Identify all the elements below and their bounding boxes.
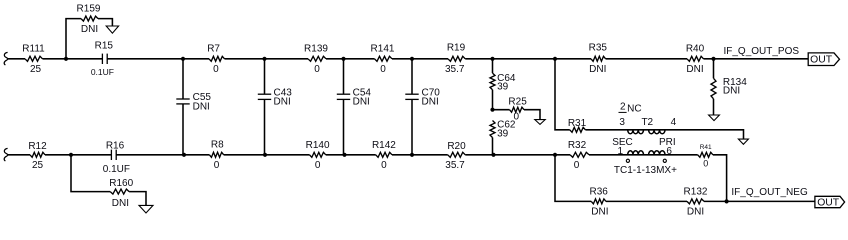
wire NEG line segment 2	[606, 200, 687, 202]
node Q junction R36 feed	[553, 153, 557, 157]
svg-text:OUT: OUT	[810, 55, 833, 66]
transformer T2 secondary winding	[627, 154, 666, 156]
svg-text:39: 39	[497, 82, 509, 93]
wire R31 feed from top rail	[555, 59, 570, 130]
wire bottom rail segment 1	[8, 154, 30, 156]
svg-text:DNI: DNI	[274, 96, 291, 107]
resistor R160	[110, 189, 129, 194]
node L junction C55 bottom	[182, 153, 186, 157]
svg-text:0: 0	[703, 159, 708, 169]
resistor R32	[570, 152, 589, 157]
svg-text:R20: R20	[447, 141, 466, 152]
capacitor C55	[182, 59, 184, 99]
svg-text:0: 0	[213, 64, 219, 75]
wire R160 to ground	[129, 192, 146, 206]
wire bottom rail segment 2	[45, 154, 111, 156]
svg-text:R32: R32	[568, 140, 587, 151]
node G junction R31 feed	[553, 57, 557, 61]
node J junction C64/C62/R25	[490, 108, 494, 112]
svg-text:OUT: OUT	[817, 198, 840, 209]
ground G3 under R134	[709, 115, 720, 121]
port OUT positive	[808, 53, 839, 66]
ground G1	[106, 26, 118, 33]
svg-text:IF_Q_OUT_POS: IF_Q_OUT_POS	[724, 46, 800, 57]
resistor R111	[25, 56, 43, 61]
svg-text:R142: R142	[372, 140, 396, 151]
svg-text:0.1UF: 0.1UF	[91, 67, 114, 77]
wire R25 to ground	[524, 110, 540, 120]
resistor R132	[687, 199, 704, 204]
svg-text:R132: R132	[684, 186, 708, 197]
svg-text:R41: R41	[700, 144, 712, 151]
svg-text:TC1-1-13MX+: TC1-1-13MX+	[614, 165, 677, 176]
svg-text:NC: NC	[627, 104, 641, 115]
wire top rail segment 6	[392, 58, 448, 60]
svg-text:R160: R160	[109, 178, 133, 189]
wire R159 branch	[66, 19, 81, 59]
capacitor C54	[343, 59, 345, 94]
svg-text:DNI: DNI	[422, 96, 439, 107]
resistor C62 vertical	[490, 121, 495, 138]
wire top rail segment 9	[704, 58, 809, 60]
wire R25 branch	[493, 109, 510, 111]
resistor R7	[209, 56, 225, 61]
svg-text:R8: R8	[211, 139, 224, 150]
svg-text:R19: R19	[447, 43, 466, 54]
svg-text:R140: R140	[306, 140, 330, 151]
node M junction C43 bottom	[263, 153, 267, 157]
wire R41 to NEG line	[713, 155, 727, 202]
resistor R41	[698, 152, 713, 157]
svg-text:R31: R31	[568, 118, 587, 129]
svg-text:0: 0	[214, 160, 220, 171]
resistor R20	[448, 152, 466, 157]
wire R160 branch	[71, 155, 110, 192]
svg-text:DNI: DNI	[591, 206, 608, 217]
svg-text:R139: R139	[304, 44, 328, 55]
capacitor C70	[411, 59, 413, 94]
wire R36 feed from bottom rail	[555, 155, 591, 202]
svg-text:R36: R36	[590, 186, 609, 197]
polarity dot pin 6	[663, 159, 666, 162]
node A junction R111/R15/R159	[64, 57, 68, 61]
wire T2 pin 4 to ground	[665, 130, 744, 139]
ground G5 under R160	[139, 205, 153, 213]
wire NEG line segment 3	[704, 200, 815, 202]
wire top rail segment 4	[225, 58, 309, 60]
resistor R141	[375, 56, 393, 61]
wire top rail segment 2	[43, 58, 103, 60]
node K junction R12/R16/R160	[69, 153, 73, 157]
resistor R36	[591, 199, 606, 204]
svg-text:0: 0	[381, 160, 387, 171]
svg-text:IF_Q_OUT_NEG: IF_Q_OUT_NEG	[731, 187, 808, 198]
svg-text:25: 25	[30, 64, 42, 75]
svg-text:DNI: DNI	[687, 206, 704, 217]
node C junction C43 top	[262, 57, 266, 61]
ground G4 at T2 pin 4	[738, 139, 748, 144]
wire bottom rail segment 4	[224, 154, 310, 156]
svg-text:0: 0	[574, 160, 580, 171]
wire top rail segment 7	[465, 58, 591, 60]
svg-text:35.7: 35.7	[445, 64, 465, 75]
svg-text:R7: R7	[207, 44, 220, 55]
resistor R8	[209, 152, 223, 157]
port OUT negative	[815, 196, 845, 207]
svg-text:T2: T2	[641, 117, 653, 128]
resistor R159	[81, 16, 98, 21]
svg-text:0.1UF: 0.1UF	[103, 164, 130, 175]
ground G2 under R25	[535, 120, 545, 125]
resistor R25	[510, 107, 525, 112]
svg-text:R15: R15	[95, 40, 114, 51]
resistor R31	[570, 127, 586, 132]
svg-text:R159: R159	[77, 4, 101, 15]
node O junction C70 bottom	[410, 153, 414, 157]
wire bottom rail segment 8 to T2 pin 1	[589, 154, 627, 156]
svg-text:4: 4	[671, 117, 677, 128]
svg-text:35.7: 35.7	[445, 160, 465, 171]
wire top rail segment 3	[107, 58, 209, 60]
svg-text:0: 0	[314, 64, 320, 75]
svg-text:39: 39	[497, 128, 509, 139]
capacitor C43	[264, 59, 266, 94]
svg-text:3: 3	[619, 117, 625, 128]
resistor R35	[591, 56, 606, 61]
resistor R140	[310, 152, 326, 157]
node F junction C64 top	[490, 57, 494, 61]
svg-text:DNI: DNI	[353, 96, 370, 107]
capacitor R16	[110, 150, 112, 160]
node B junction C55 top	[181, 57, 185, 61]
svg-text:DNI: DNI	[723, 85, 740, 96]
capacitor R15	[101, 54, 103, 64]
svg-text:R12: R12	[28, 141, 47, 152]
node N junction C54 bottom	[342, 153, 346, 157]
node D junction C54 top	[341, 57, 345, 61]
transformer T2 primary winding	[627, 129, 666, 131]
svg-text:DNI: DNI	[112, 198, 129, 209]
svg-text:DNI: DNI	[81, 24, 98, 35]
svg-text:25: 25	[32, 160, 44, 171]
svg-text:R16: R16	[106, 141, 125, 152]
svg-text:0: 0	[380, 64, 386, 75]
svg-text:R141: R141	[371, 44, 395, 55]
svg-text:0: 0	[315, 160, 321, 171]
resistor R40	[687, 56, 704, 61]
svg-text:DNI: DNI	[193, 101, 210, 112]
node IN+ off-page squiggle	[4, 52, 8, 65]
resistor R12	[30, 152, 45, 157]
wire R159 to ground	[98, 19, 112, 26]
svg-text:2: 2	[620, 102, 626, 113]
svg-text:DNI: DNI	[686, 64, 703, 75]
wire bottom rail segment 3	[116, 154, 209, 156]
wire top rail segment 5	[326, 58, 375, 60]
wire bottom rail segment 7	[465, 154, 570, 156]
wire bottom rail segment 5	[326, 154, 376, 156]
node IN- off-page squiggle	[4, 148, 8, 161]
svg-text:1: 1	[618, 146, 624, 157]
wire bottom rail segment 6	[392, 154, 448, 156]
wire R31 to T2 pin 3	[585, 129, 626, 131]
node P junction C62 bottom	[491, 153, 495, 157]
wire top rail segment 1	[8, 58, 25, 60]
node E junction C70 top	[410, 57, 414, 61]
node H junction R134 top	[711, 57, 715, 61]
resistor R19	[448, 56, 465, 61]
wire T2 pin 6 to R41	[665, 154, 698, 156]
svg-text:DNI: DNI	[589, 64, 606, 75]
resistor R142	[376, 152, 392, 157]
resistor R139	[308, 56, 326, 61]
svg-text:R25: R25	[508, 96, 527, 107]
node R junction R41/NEG line	[725, 199, 729, 203]
resistor C64 vertical	[492, 59, 494, 73]
svg-text:R40: R40	[686, 44, 705, 55]
resistor R134 vertical	[713, 59, 715, 79]
polarity dot pin 1	[626, 159, 629, 162]
wire top rail segment 8	[606, 58, 687, 60]
svg-text:R111: R111	[22, 44, 45, 55]
svg-text:R35: R35	[589, 43, 608, 54]
